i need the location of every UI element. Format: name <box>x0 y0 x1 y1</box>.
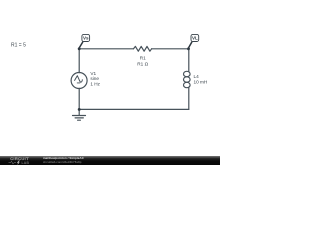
svg-text:LAB: LAB <box>22 161 30 165</box>
svg-text:R1 = 5: R1 = 5 <box>11 42 26 48</box>
svg-text:1 Hz: 1 Hz <box>90 81 100 86</box>
svg-text:R1 Ω: R1 Ω <box>137 61 148 66</box>
svg-text:VL: VL <box>192 36 198 41</box>
svg-text:R1: R1 <box>140 55 146 60</box>
svg-text:Vs: Vs <box>83 36 89 41</box>
svg-text:10 mH: 10 mH <box>194 80 208 85</box>
svg-text:L4: L4 <box>194 74 200 79</box>
